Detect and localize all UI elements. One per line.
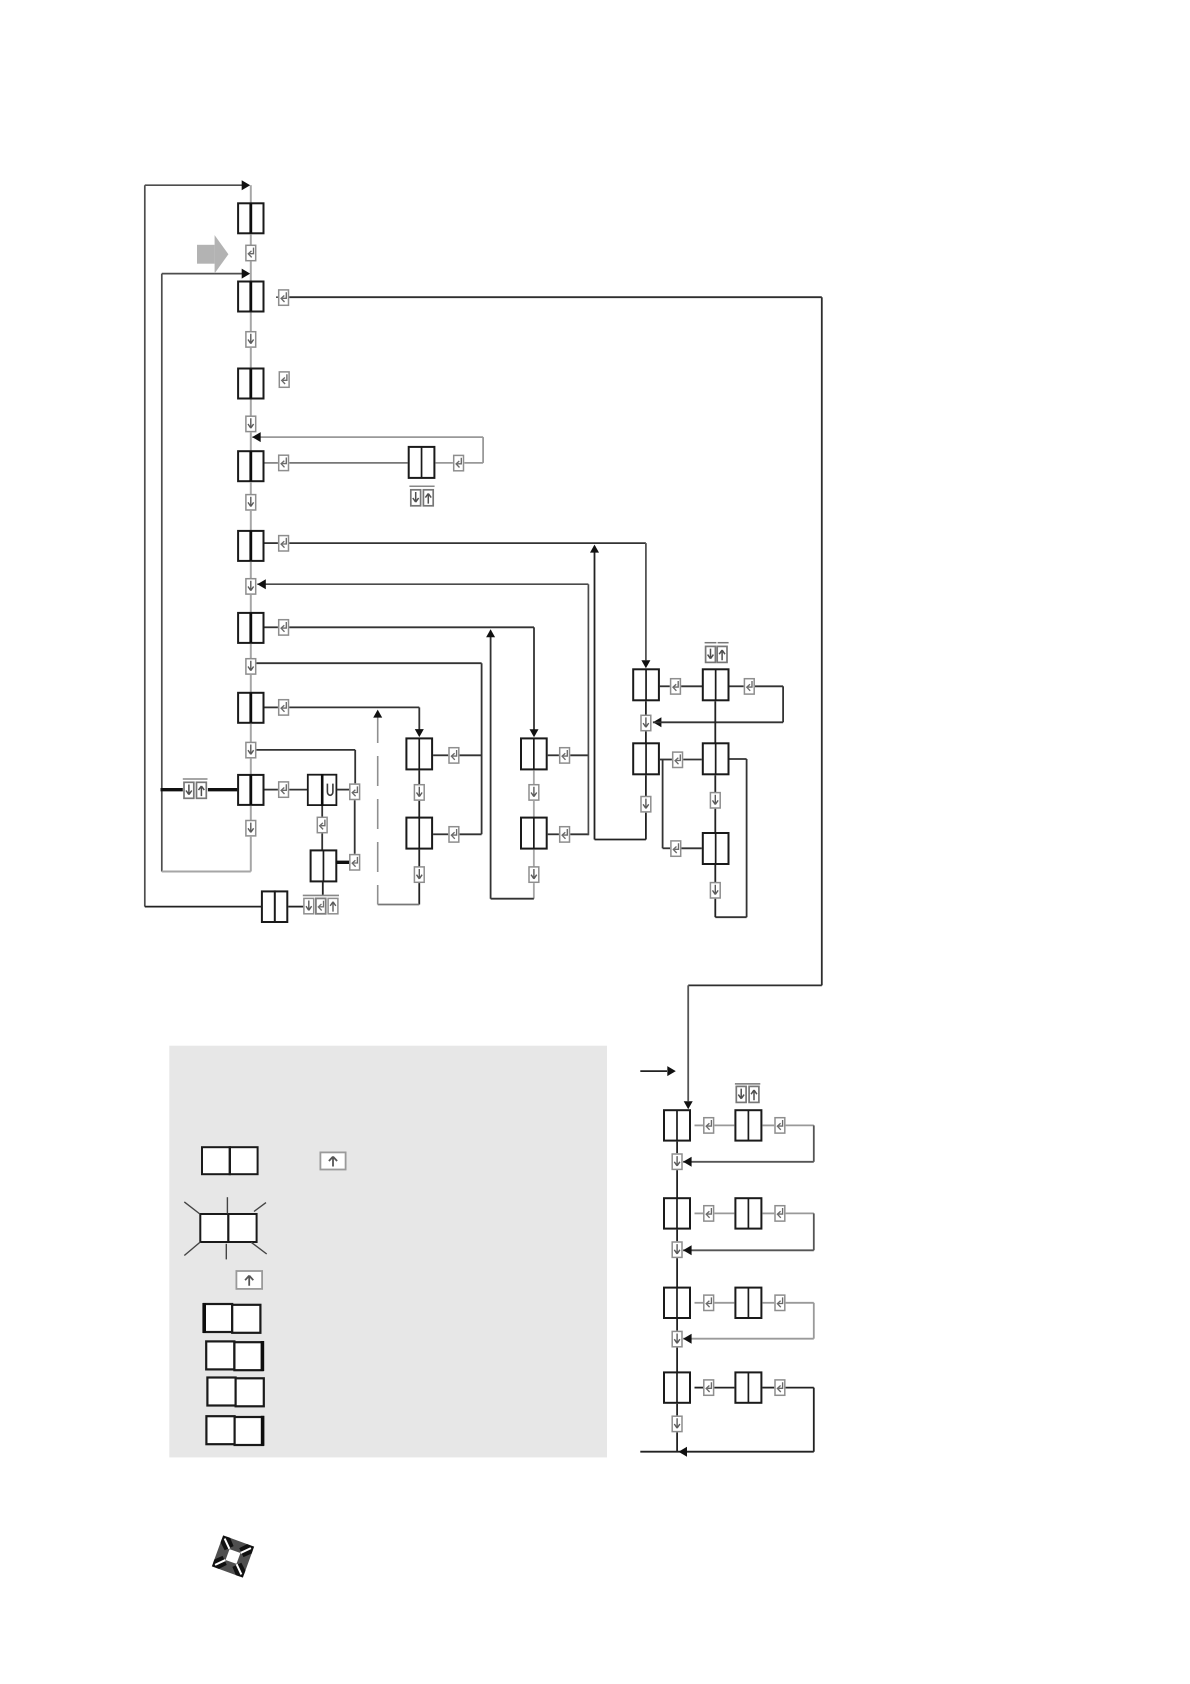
enter key right of box B — [279, 290, 289, 305]
menu box H — [238, 613, 263, 643]
menu box B — [238, 282, 263, 312]
wire chain A to enter key — [250, 234, 252, 245]
wire box U to enter key — [337, 789, 349, 791]
arrowhead into down key below S1 — [683, 1157, 692, 1167]
wire enter key D to box E — [289, 462, 407, 464]
wire col3 collector riser — [587, 584, 589, 835]
wire from down key under H to col2 collector — [257, 662, 482, 664]
menu box F — [238, 531, 263, 561]
wire T2 to enter key — [762, 1212, 774, 1214]
wire enter key to box R3 — [682, 847, 702, 849]
wire chain down key to box C — [250, 348, 252, 369]
menu box S2 — [664, 1198, 690, 1228]
menu box L — [238, 775, 263, 805]
wire down key to S4 — [676, 1348, 678, 1373]
wire chain down key to box F — [250, 511, 252, 531]
wire G1 to enter key — [660, 685, 670, 687]
menu box column-2 bottom — [406, 818, 432, 849]
wire chain D to down key — [250, 482, 252, 495]
wire col3 box to down key — [533, 770, 535, 785]
flash rays around legend box — [184, 1197, 266, 1259]
arrowhead into main chain below enter key — [242, 269, 251, 279]
wire R1 to R2 — [714, 701, 716, 743]
logo mark bottom left — [212, 1535, 254, 1577]
down key bottom of column 2 — [414, 867, 424, 882]
wire chain down key to box H — [250, 595, 252, 613]
wire S1 to down key — [676, 1142, 678, 1154]
down key below box I — [246, 742, 256, 757]
enter key right of col3 top box — [560, 748, 570, 763]
wire S4 to enter key — [695, 1387, 704, 1389]
legend box pair steady display — [202, 1146, 258, 1175]
wire box F to enter key — [265, 542, 278, 544]
wire box L to enter key — [265, 789, 278, 791]
down key below G2 — [641, 797, 651, 812]
wire R column bottom segment — [714, 899, 716, 917]
enter key right of box M — [350, 855, 360, 870]
wire from down key under I to enter key of U — [257, 749, 356, 751]
wire entry line to top menu box — [145, 184, 244, 186]
menu box S1 — [664, 1110, 690, 1140]
wire col2 bottom segment — [418, 883, 420, 904]
enter key right of T4 — [775, 1380, 785, 1395]
arrowhead into main chain top — [242, 180, 251, 190]
menu box R3 — [703, 833, 729, 864]
wire box N to outer return loop — [145, 906, 262, 908]
wire chain down key to box L — [250, 759, 252, 775]
wire chain down key to box I — [250, 675, 252, 693]
menu box S4 — [664, 1372, 690, 1402]
wire col3 enter key to collector — [570, 754, 588, 756]
enter key right of S3 — [704, 1295, 714, 1310]
big grey start arrow — [197, 235, 228, 273]
arrowhead into down key under box F — [257, 579, 266, 589]
wire S2 to enter key — [695, 1212, 704, 1214]
thick wire second loop to down/up keys — [161, 788, 183, 791]
arrowhead into down key below G1 — [653, 717, 662, 727]
wire chain I to down key — [250, 724, 252, 743]
up key in exit row — [328, 898, 338, 913]
wire feed riser to column-3 — [533, 627, 535, 730]
wire S column bottom segment — [676, 1432, 678, 1451]
wire branch down to enter key of R3 — [662, 760, 664, 849]
arrowhead into down key below S2 — [683, 1245, 692, 1255]
wire return riser right of R column — [746, 759, 748, 917]
wire feed riser to column-2 — [418, 707, 420, 730]
menu box column-2 top — [406, 738, 432, 769]
wire enter key H to column-3 feed — [289, 626, 534, 628]
enter key below box A — [246, 245, 256, 260]
enter key right of G2 — [673, 752, 683, 767]
down key below R2 — [710, 793, 720, 808]
enter key right of S4 — [704, 1380, 714, 1395]
wire S2 to down key — [676, 1230, 678, 1242]
arrowhead into down key below S3 — [683, 1334, 692, 1344]
enter key right of box U — [350, 784, 360, 799]
up key above box T1 — [749, 1086, 759, 1102]
legend up key wide — [320, 1152, 345, 1169]
overline above down/up keys under box E — [409, 485, 434, 487]
down key below box C — [246, 416, 256, 431]
down key in column 3 — [529, 785, 539, 800]
wire S3 to down key — [676, 1319, 678, 1331]
wire enter key U down to enter key M — [354, 800, 356, 854]
wire enter key R1 to return riser — [755, 685, 783, 687]
enter key right of box L — [279, 782, 289, 797]
menu box C — [238, 369, 263, 399]
wire col2 down key to second box — [418, 801, 420, 818]
wire box I to enter key — [265, 706, 278, 708]
enter key left of R3 — [671, 841, 681, 856]
down key below S3 — [672, 1331, 682, 1346]
wire down key to S3 — [676, 1258, 678, 1287]
wire return riser row 1 — [813, 1125, 815, 1161]
wire enter key to T2 — [714, 1212, 734, 1214]
enter key right of box F — [279, 536, 289, 551]
wire return row 3 into down key — [683, 1338, 814, 1340]
overline above down key over R1 — [705, 642, 717, 644]
down key below R3 — [710, 883, 720, 898]
wire return row 2 into down key — [683, 1249, 814, 1251]
wire enter key E to return riser — [464, 462, 483, 464]
wire down key to box G2 — [645, 732, 647, 744]
wire col3 bottom segment — [533, 883, 535, 899]
down key above box R1 — [706, 646, 716, 662]
wire feed riser to bottom-right section — [687, 985, 689, 1101]
wire col2 bottom box to enter key — [433, 833, 448, 835]
menu box I — [238, 693, 263, 723]
arrowhead into chain above box D — [252, 432, 261, 442]
wire R column bottom return — [715, 916, 746, 918]
enter key right of G1 — [671, 679, 681, 694]
arrowhead into box G1 — [641, 660, 650, 668]
legend segment pair row 4 — [206, 1416, 262, 1446]
wire return riser row 3 — [813, 1303, 815, 1339]
wire chain L to down key — [250, 806, 252, 821]
wire down key to S2 — [676, 1170, 678, 1198]
enter key right of S2 — [704, 1206, 714, 1221]
wire standalone pointer arrow — [640, 1070, 667, 1072]
up key left of box L — [197, 782, 207, 798]
menu box E (set value) — [409, 447, 435, 478]
wire return row 1 into down key — [683, 1161, 814, 1163]
down key above box T1 — [736, 1086, 746, 1102]
wire enter key to T3 — [714, 1302, 734, 1304]
wire col2 box to down key — [418, 770, 420, 785]
enter key right of col2 top box — [449, 748, 459, 763]
wire chain bottom return to second loop — [162, 871, 251, 873]
wire enter key G2 to box R2 — [683, 759, 702, 761]
wire col3 second enter key to collector — [570, 833, 588, 835]
wire return riser row 4 — [813, 1388, 815, 1452]
wire T1 to enter key — [762, 1124, 774, 1126]
wire R2 right edge to return riser — [730, 758, 747, 760]
wire col3 top box to enter key — [548, 754, 559, 756]
legend segment pair row 1 — [204, 1303, 260, 1333]
menu box M — [311, 850, 337, 881]
menu box G2 — [633, 743, 659, 774]
wire long branch from enter key B to right side — [289, 296, 822, 298]
menu box T3 — [735, 1288, 761, 1318]
wire T3 to enter key — [762, 1302, 774, 1304]
arrowhead into column-2 top box — [415, 729, 424, 737]
wire G2 to enter key — [660, 759, 672, 761]
wire down key to box R3 — [714, 809, 716, 832]
arrowhead into feed line of G column — [590, 545, 599, 553]
wire S3 to enter key — [695, 1302, 704, 1304]
wire col3 return bottom — [491, 898, 534, 900]
wire chain F to down key — [250, 562, 252, 579]
arrowhead of standalone pointer — [667, 1066, 676, 1076]
legend box pair flashing display — [200, 1213, 256, 1243]
wire second return loop vertical — [161, 274, 163, 872]
wire G1 to down key — [645, 701, 647, 715]
overline above down/up keys left of box L — [183, 778, 208, 780]
legend segment pair row 2 — [206, 1341, 262, 1371]
down key left of box L — [184, 782, 194, 798]
menu box S3 — [664, 1288, 690, 1318]
wire return riser right of box E — [482, 437, 484, 463]
wire col2 enter key to collector — [460, 754, 482, 756]
down key bottom of column 3 — [529, 867, 539, 882]
wire box U down to enter key — [321, 806, 323, 817]
wire col2 collector riser — [481, 663, 483, 834]
enter key in exit row — [316, 898, 326, 913]
down key below box B — [246, 332, 256, 347]
wire box E to enter key — [435, 462, 453, 464]
wire bottom return line — [640, 1451, 814, 1453]
wire long branch bottom horizontal — [688, 984, 822, 986]
menu box R2 — [703, 743, 729, 774]
menu box T1 — [735, 1110, 761, 1140]
wire box M down to key row — [322, 882, 324, 896]
wire main chain segment top — [250, 185, 252, 203]
enter key below box U — [317, 817, 327, 832]
arrowhead into box S1 — [684, 1101, 693, 1109]
wire feed to box G1 — [645, 543, 647, 660]
menu box column-3 top — [521, 738, 547, 769]
wire chain enter key to box B — [250, 262, 252, 282]
wire enter key T2 to return riser — [786, 1212, 814, 1214]
enter key right of T3 — [775, 1295, 785, 1310]
menu box T2 — [735, 1198, 761, 1228]
wire G column return riser — [594, 546, 596, 840]
wire return riser row 2 — [813, 1213, 815, 1250]
wire R2 to down key — [714, 775, 716, 793]
down key below box D — [246, 495, 256, 510]
wire enter key T4 to return riser — [786, 1387, 814, 1389]
thick wire down/up keys to box L — [208, 788, 237, 791]
wire return riser right of R1 — [782, 686, 784, 722]
down key under box E — [411, 490, 421, 506]
enter key right of S1 — [704, 1118, 714, 1133]
overline above up key over R1 — [718, 642, 729, 644]
arrowhead into column-3 top box — [530, 729, 539, 737]
overline above down/up keys over box T1 — [735, 1083, 760, 1085]
enter key right of R1 — [744, 679, 754, 694]
enter key right of box C — [279, 372, 289, 387]
menu box column-3 bottom — [521, 818, 547, 849]
thick wire box M to enter key — [336, 861, 349, 864]
down key below box F — [246, 579, 256, 594]
enter key right of box D — [279, 455, 289, 470]
enter key right of box H — [279, 620, 289, 635]
arrowhead into feed line from enter H — [486, 629, 495, 637]
down key below G1 — [641, 715, 651, 730]
wire enter key to T4 — [714, 1387, 734, 1389]
arrowhead into S column bottom — [679, 1447, 688, 1457]
wire col2 return bottom — [378, 904, 420, 906]
wire col2 second enter key to collector — [460, 833, 482, 835]
down key below box H — [246, 659, 256, 674]
down key in exit row — [304, 898, 314, 913]
legend segment pair row 3 — [207, 1378, 263, 1407]
wire enter key I to column-2 feed — [289, 706, 419, 708]
enter key right of box I — [279, 700, 289, 715]
wire box H to enter key — [265, 626, 278, 628]
down key below S2 — [672, 1242, 682, 1257]
up key above box R1 — [717, 646, 727, 662]
menu box A (top level) — [238, 203, 263, 233]
legend up key wide 2 — [236, 1271, 262, 1289]
wire R3 to down key — [714, 865, 716, 883]
wire col2 dashed return riser — [377, 713, 379, 905]
wire return from R1 enter to down key — [653, 721, 783, 723]
menu box U (unit display) — [308, 774, 337, 806]
legend panel background — [169, 1046, 607, 1458]
overline above exit key row — [303, 894, 339, 896]
wire G column bottom segment — [645, 813, 647, 840]
wire riser down to enter key of U — [354, 750, 356, 783]
menu box N (exit box) — [262, 890, 287, 923]
menu box R1 — [703, 669, 729, 700]
wire chain B to down key — [250, 313, 252, 332]
down key in column 2 — [414, 785, 424, 800]
wire enter key L to box U — [289, 789, 307, 791]
arrowhead into feed line from enter I — [373, 710, 382, 718]
wire chain H to down key — [250, 644, 252, 659]
wire G column return bottom — [595, 839, 646, 841]
wire enter key F to G column feed — [289, 542, 646, 544]
wire box D to enter key — [265, 462, 278, 464]
wire S1 to enter key — [695, 1124, 704, 1126]
wire long branch right vertical — [821, 297, 823, 985]
wire chain down key to box D — [250, 432, 252, 451]
down key below S1 — [672, 1154, 682, 1169]
enter key right of col3 bottom box — [560, 827, 570, 842]
wire col3 return riser — [490, 631, 492, 899]
wire return line into chain above box D — [252, 436, 483, 438]
wire T4 to enter key — [762, 1387, 774, 1389]
wire col2 second box to down key — [418, 850, 420, 868]
wire chain bottom segment — [250, 837, 252, 872]
wire col3 return into down key under F — [257, 583, 588, 585]
wire enter key T1 to return riser — [786, 1124, 814, 1126]
wire chain C to down key — [250, 400, 252, 417]
enter key right of T1 — [775, 1118, 785, 1133]
enter key right of T2 — [775, 1206, 785, 1221]
enter key right of col2 bottom box — [449, 827, 459, 842]
wire tick left of enter key B — [276, 296, 278, 298]
wire R1 to enter key — [730, 685, 744, 687]
wire enter key to box R1 — [681, 685, 703, 687]
down key below S4 — [672, 1416, 682, 1431]
up key under box E — [423, 490, 433, 506]
wire col3 second box to down key — [533, 850, 535, 868]
wire enter key T3 to return riser — [786, 1302, 814, 1304]
wire S4 to down key — [676, 1404, 678, 1416]
wire outer return loop left vertical — [144, 185, 146, 906]
wire enter key down to box M — [321, 834, 323, 851]
menu box G1 — [633, 669, 659, 700]
wire col3 bottom box to enter key — [548, 833, 559, 835]
menu box D — [238, 451, 263, 481]
down key below box L — [246, 821, 256, 836]
wire col3 down key to second box — [533, 801, 535, 818]
menu box T4 — [735, 1372, 761, 1402]
wire to enter key left of R3 — [663, 847, 671, 849]
wire box N to key row — [288, 906, 303, 908]
enter key right of box E — [454, 455, 464, 470]
wire entry line to second menu box — [162, 273, 244, 275]
wire enter key to T1 — [714, 1124, 734, 1126]
wire G2 to down key — [645, 775, 647, 796]
wire col2 top box to enter key — [433, 754, 448, 756]
